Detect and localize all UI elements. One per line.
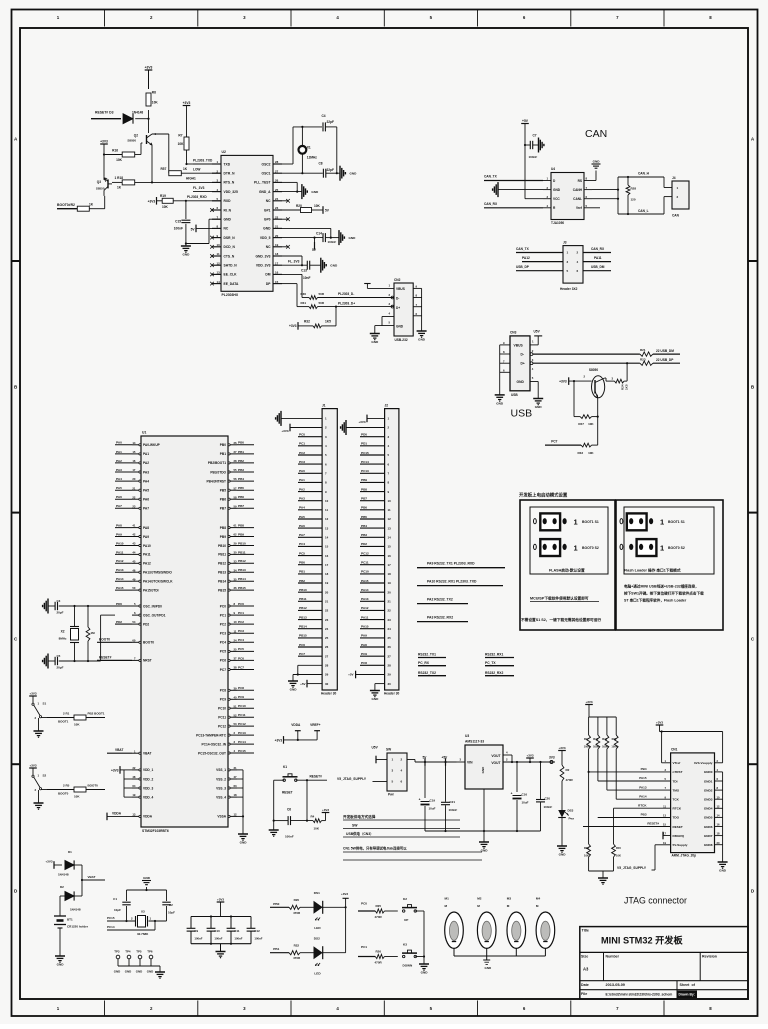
- J1 pin2 +3V3: [281, 424, 322, 433]
- wire V5_JTAG_SUPPLY to CN1: [617, 845, 671, 870]
- svg-text:M1: M1: [445, 897, 450, 901]
- resistor R27 10K (base pull-down): [574, 381, 598, 426]
- svg-text:+3V3: +3V3: [281, 429, 288, 433]
- svg-text:PA6: PA6: [116, 495, 122, 499]
- svg-text:12: 12: [388, 517, 392, 521]
- svg-text:SHTD_N: SHTD_N: [224, 264, 238, 268]
- svg-text:MCUISP下载软件使用默认设置即可: MCUISP下载软件使用默认设置即可: [530, 596, 589, 601]
- svg-text:PB14: PB14: [238, 577, 246, 581]
- ground (CN3 shield): [495, 395, 505, 406]
- svg-text:GND: GND: [371, 697, 379, 701]
- svg-text:R20: R20: [296, 204, 302, 208]
- svg-text:J3: J3: [563, 240, 567, 244]
- svg-text:M: M: [536, 904, 539, 908]
- svg-text:PL2303HX: PL2303HX: [222, 293, 239, 297]
- svg-text:AMS1117-33: AMS1117-33: [465, 740, 484, 744]
- svg-text:5V-Supply: 5V-Supply: [673, 843, 688, 847]
- svg-text:C4: C4: [322, 114, 326, 118]
- ground arrow (C3): [43, 599, 48, 614]
- svg-text:GND_A: GND_A: [259, 190, 271, 194]
- svg-text:K3: K3: [403, 943, 407, 947]
- U2 pin22 GP0 mark: [282, 217, 290, 221]
- svg-text:不需设置S1 S2，一键下载无需其他设置即可运行: 不需设置S1 S2，一键下载无需其他设置即可运行: [521, 617, 601, 622]
- svg-text:PL2303_RXD: PL2303_RXD: [187, 195, 207, 199]
- ground (DS3): [557, 846, 567, 857]
- svg-text:PC10: PC10: [361, 570, 369, 574]
- wire HIGH1 line to U2 RTS_N: [135, 177, 221, 183]
- svg-text:GND: GND: [224, 218, 232, 222]
- crystal X3 32.768K: [131, 910, 152, 937]
- svg-text:BOOT1 S1: BOOT1 S1: [668, 520, 685, 524]
- svg-text:GND: GND: [396, 324, 404, 328]
- svg-text:VBUS: VBUS: [514, 344, 524, 348]
- svg-text:PC1: PC1: [238, 611, 244, 615]
- svg-text:V5_JTAG_SUPPLY: V5_JTAG_SUPPLY: [337, 777, 367, 781]
- svg-text:16: 16: [388, 554, 392, 558]
- svg-text:VIN: VIN: [467, 760, 473, 764]
- svg-text:PC2: PC2: [238, 620, 244, 624]
- resistor R16 10K: [103, 143, 143, 162]
- svg-text:J2: J2: [385, 403, 389, 407]
- wire PC15 net: [107, 916, 136, 922]
- svg-text:NC: NC: [266, 199, 271, 203]
- svg-text:LED: LED: [314, 926, 321, 930]
- svg-text:PA10 RS232_RX1 PL2303_: PA10 RS232_RX1 PL2303_TXD: [427, 580, 477, 584]
- resistor R30 50R: [301, 292, 325, 299]
- svg-text:PC14: PC14: [238, 740, 246, 744]
- svg-text:+3V3: +3V3: [100, 139, 108, 143]
- svg-text:10nF: 10nF: [303, 276, 310, 280]
- svg-text:32.768K: 32.768K: [137, 932, 149, 936]
- svg-text:PB1: PB1: [299, 570, 305, 574]
- svg-text:PC1: PC1: [220, 613, 226, 617]
- svg-text:C1: C1: [113, 897, 117, 901]
- svg-text:VREF+: VREF+: [310, 723, 321, 727]
- wire PC14 net: [107, 921, 155, 930]
- svg-text:100nF: 100nF: [544, 805, 553, 809]
- svg-text:+3V3: +3V3: [322, 808, 329, 812]
- svg-text:CR1220 holder: CR1220 holder: [67, 925, 89, 929]
- svg-text:D-: D-: [521, 353, 524, 357]
- power +3V3 (U3 out): [526, 753, 534, 762]
- svg-text:10pF: 10pF: [168, 911, 175, 915]
- power 3V3 node: [549, 755, 555, 763]
- svg-text:Sheet: Sheet: [680, 983, 691, 987]
- switch S2: [29, 763, 47, 803]
- svg-text:28: 28: [388, 664, 392, 668]
- svg-text:C13: C13: [301, 268, 307, 272]
- J1 pin30 +5V: [300, 680, 322, 688]
- capacitor C2 10pF: [162, 902, 175, 914]
- svg-text:File: File: [581, 992, 587, 996]
- svg-text:CTS_N: CTS_N: [224, 254, 235, 258]
- svg-text:GND0: GND0: [704, 770, 713, 774]
- svg-text:+3V3: +3V3: [45, 860, 52, 864]
- svg-text:V5_JTAG_SUPPLY: V5_JTAG_SUPPLY: [617, 866, 647, 870]
- svg-text:PC15: PC15: [238, 749, 246, 753]
- wire CAN_RX from J3: [583, 247, 611, 253]
- svg-text:27: 27: [388, 654, 392, 658]
- svg-text:X2: X2: [61, 630, 65, 634]
- svg-text:13: 13: [663, 814, 666, 818]
- svg-text:PB9: PB9: [361, 478, 367, 482]
- svg-text:Revision: Revision: [702, 955, 717, 959]
- svg-text:10K: 10K: [152, 101, 159, 105]
- svg-text:PA8: PA8: [361, 643, 367, 647]
- svg-text:CAN_RX: CAN_RX: [484, 202, 498, 206]
- svg-text:UP: UP: [404, 918, 408, 922]
- svg-text:R27: R27: [578, 422, 584, 426]
- svg-text:R20: R20: [294, 898, 300, 902]
- svg-text:LED: LED: [314, 971, 321, 975]
- svg-text:PB6: PB6: [220, 498, 226, 502]
- wire 5V rail: [407, 760, 457, 764]
- CN2 shield pins 6-9: [413, 285, 421, 331]
- svg-text:PB11: PB11: [218, 553, 226, 557]
- wire nTRST PB4 net: [589, 749, 671, 772]
- svg-text:PA10: PA10: [361, 625, 369, 629]
- svg-text:PC7: PC7: [551, 439, 557, 443]
- svg-text:R2: R2: [566, 768, 570, 772]
- svg-text:CAN_L: CAN_L: [638, 209, 649, 213]
- svg-text:R23: R23: [640, 357, 646, 361]
- svg-text:470R: 470R: [566, 778, 574, 782]
- CN2 pin1 VBUS bar: [364, 283, 394, 288]
- svg-text:23: 23: [325, 618, 329, 622]
- svg-text:R14: R14: [584, 846, 589, 850]
- svg-text:PB6: PB6: [238, 495, 244, 499]
- svg-text:+3V3: +3V3: [148, 200, 156, 204]
- svg-text:PA14: PA14: [361, 588, 369, 592]
- svg-text:Header 30: Header 30: [384, 692, 399, 696]
- svg-text:1M: 1M: [91, 631, 96, 635]
- svg-text:10K: 10K: [584, 854, 589, 858]
- svg-text:PA11: PA11: [594, 256, 602, 260]
- svg-text:PA9 RS232_TX1 PL2303_: PA9 RS232_TX1 PL2303_RXD: [427, 562, 475, 566]
- svg-text:VDDA: VDDA: [112, 811, 122, 815]
- capacitor C6 100nF: [285, 808, 294, 839]
- svg-text:1K5: 1K5: [325, 320, 331, 324]
- svg-text:PB1: PB1: [220, 452, 226, 456]
- svg-text:PA6: PA6: [299, 524, 305, 528]
- svg-text:PB7: PB7: [361, 497, 367, 501]
- svg-text:FL_3V3: FL_3V3: [288, 259, 300, 263]
- wire USB D- line: [530, 349, 640, 356]
- svg-text:PC14-OSC32_IN: PC14-OSC32_IN: [202, 742, 227, 746]
- switch S1: [29, 691, 47, 731]
- svg-text:PA11: PA11: [143, 553, 151, 557]
- wire TDI PA15 net: [598, 749, 671, 781]
- wire PLL_TEST GND_A net: [282, 182, 302, 192]
- svg-text:PC9: PC9: [220, 698, 226, 702]
- svg-text:VSS_4: VSS_4: [216, 795, 226, 799]
- svg-text:PC3: PC3: [238, 629, 244, 633]
- svg-text:1K: 1K: [117, 186, 122, 190]
- svg-text:22: 22: [388, 609, 392, 613]
- svg-text:PLL_TEST: PLL_TEST: [254, 181, 271, 185]
- svg-text:PA15: PA15: [361, 579, 369, 583]
- svg-text:USB供电（CN3）: USB供电（CN3）: [346, 831, 374, 836]
- svg-text:PD2: PD2: [361, 542, 367, 546]
- capacitor C1 10pF: [113, 897, 131, 912]
- svg-text:PD0: PD0: [116, 602, 122, 606]
- wire RS232_TX1 tie: [418, 653, 446, 658]
- resistor R1 10K: [47, 711, 86, 726]
- svg-text:C20: C20: [545, 797, 551, 801]
- svg-text:HIGH1: HIGH1: [186, 177, 196, 181]
- svg-text:GND: GND: [114, 970, 120, 974]
- ground (S1): [34, 731, 44, 738]
- capacitor C3 20pF: [48, 599, 64, 615]
- resistors R9 R10 R11 R12 100K: [584, 717, 618, 749]
- svg-text:BOOT0: BOOT0: [58, 792, 69, 796]
- title block frame: [580, 927, 748, 999]
- power +3V3 (Q1 base): [559, 377, 591, 385]
- svg-text:S8050: S8050: [127, 139, 136, 143]
- wire PC1 net (K3): [358, 945, 375, 956]
- battery BT1 CR1220: [54, 914, 89, 956]
- svg-text:+3V3: +3V3: [183, 101, 191, 105]
- svg-text:C8: C8: [319, 161, 323, 165]
- svg-text:+3V3: +3V3: [558, 746, 565, 750]
- label power select note: [343, 814, 482, 860]
- svg-text:PA3: PA3: [143, 470, 149, 474]
- svg-text:C9: C9: [194, 929, 198, 933]
- svg-text:RESET: RESET: [673, 825, 683, 829]
- svg-text:17: 17: [388, 563, 392, 567]
- svg-text:USB: USB: [511, 408, 533, 420]
- svg-text:PA10: PA10: [143, 544, 151, 548]
- svg-text:100nF: 100nF: [214, 936, 222, 940]
- svg-text:25: 25: [325, 636, 329, 640]
- svg-text:GND: GND: [290, 688, 298, 692]
- svg-text:PA11: PA11: [116, 550, 124, 554]
- wire U4 GND pin2: [498, 189, 543, 191]
- wire TMS PA13 net: [607, 749, 671, 790]
- wire CAN_L bottom rail: [618, 197, 664, 214]
- svg-text:PA1: PA1: [116, 450, 122, 454]
- wire PA10 RS232_RX1 tie: [417, 580, 503, 586]
- svg-text:1: 1: [574, 518, 578, 527]
- svg-text:PA7: PA7: [116, 504, 122, 508]
- svg-text:GND1: GND1: [704, 779, 713, 783]
- svg-text:PB11: PB11: [299, 597, 307, 601]
- resistor R28 120: [626, 176, 636, 215]
- svg-text:R4: R4: [311, 814, 315, 818]
- svg-text:PB5: PB5: [220, 489, 226, 493]
- power +3V3 (R7): [183, 101, 191, 137]
- svg-text:GND: GND: [719, 869, 727, 873]
- svg-text:21: 21: [132, 486, 136, 490]
- svg-text:TMS: TMS: [673, 788, 680, 792]
- svg-text:M4: M4: [536, 897, 541, 901]
- capacitor C15 100nF: [174, 200, 191, 246]
- svg-text:CN1 5W供电，只有导调试电Jtak连接可以: CN1 5W供电，只有导调试电Jtak连接可以: [343, 846, 407, 851]
- svg-text:100K: 100K: [593, 745, 599, 749]
- svg-text:RS232_TX2: RS232_TX2: [418, 671, 436, 675]
- svg-text:PB15: PB15: [238, 586, 246, 590]
- wire DP to R31: [282, 284, 309, 307]
- svg-text:Header 30: Header 30: [321, 692, 336, 696]
- svg-text:10K: 10K: [162, 205, 169, 209]
- svg-text:S1: S1: [43, 702, 47, 706]
- svg-text:PA2: PA2: [116, 459, 122, 463]
- svg-text:PC3: PC3: [220, 632, 226, 636]
- svg-text:PB12: PB12: [218, 562, 226, 566]
- svg-text:GND: GND: [559, 853, 567, 857]
- U2 pin names and numbers: [212, 160, 282, 286]
- jumper diagram BOOT1 S1 loader: [620, 513, 685, 530]
- wire RESET# net label: [97, 656, 132, 661]
- power +3V3 (decoupling): [217, 897, 225, 916]
- wire PC_RX tie: [418, 661, 446, 666]
- wire OSC2 net: [282, 127, 322, 164]
- wire R14 R15 ground rail: [589, 871, 614, 878]
- svg-text:NC: NC: [266, 245, 271, 249]
- svg-text:100K: 100K: [602, 745, 608, 749]
- wire USB_DM label: [653, 349, 680, 354]
- svg-text:PB12: PB12: [299, 606, 307, 610]
- IC U2 PL2303HX body: [221, 150, 273, 297]
- svg-text:PC15: PC15: [361, 451, 369, 455]
- svg-text:R57: R57: [161, 167, 167, 171]
- svg-text:PB10: PB10: [238, 541, 246, 545]
- svg-text:PB3: PB3: [641, 813, 647, 817]
- svg-text:Flash Loader 操作 串口1下载模式: Flash Loader 操作 串口1下载模式: [624, 568, 681, 573]
- svg-text:GND: GND: [418, 338, 426, 342]
- svg-text:VDDA: VDDA: [291, 723, 301, 727]
- svg-text:D+: D+: [396, 306, 400, 310]
- svg-text:GND: GND: [240, 841, 248, 845]
- svg-text:OSC2: OSC2: [262, 162, 271, 166]
- svg-text:R32: R32: [304, 320, 310, 324]
- svg-text:1: 1: [660, 518, 664, 527]
- svg-text:PB8: PB8: [238, 524, 244, 528]
- label USB title: [511, 408, 533, 420]
- wire CAN_H top rail: [618, 172, 664, 188]
- jumper diagram BOOT0 S2 default: [534, 539, 599, 556]
- svg-text:R15: R15: [616, 846, 621, 850]
- wire VBAT net: [81, 865, 105, 896]
- svg-text:1N4148: 1N4148: [132, 110, 143, 114]
- svg-text:PA4: PA4: [143, 479, 149, 483]
- svg-text:U5V: U5V: [534, 329, 541, 333]
- svg-text:Pwr: Pwr: [569, 817, 575, 821]
- wire PC0 net (K2): [358, 902, 375, 911]
- svg-text:NRST: NRST: [143, 659, 152, 663]
- svg-text:VDD_325: VDD_325: [224, 190, 238, 194]
- svg-text:R9: R9: [584, 737, 588, 741]
- wire U3 VIN: [457, 761, 466, 763]
- svg-text:ST 串口1下载程序软件，Flash Loader: ST 串口1下载程序软件，Flash Loader: [624, 598, 687, 603]
- svg-text:GND: GND: [371, 340, 379, 344]
- ground (U4 RS pin8): [592, 159, 601, 180]
- svg-text:PA15: PA15: [639, 776, 647, 780]
- resistor R7 10K: [178, 134, 193, 166]
- resistor R23 22 (USB_DP): [640, 357, 653, 365]
- svg-text:TDI: TDI: [673, 779, 678, 783]
- svg-text:58: 58: [234, 495, 238, 499]
- svg-text:CN3: CN3: [510, 330, 517, 334]
- wire U5V to CN3 VBUS: [530, 329, 542, 345]
- ground (CN2 pin5): [370, 334, 380, 345]
- J2 pin2 ground arrow: [341, 420, 385, 435]
- switch SW block: [386, 748, 407, 797]
- svg-text:22pF: 22pF: [327, 120, 334, 124]
- CN2 pin2 pin3 circles: [389, 293, 394, 325]
- connector J4 CAN: [664, 176, 689, 218]
- svg-text:M: M: [445, 904, 448, 908]
- svg-text:PC0: PC0: [238, 602, 244, 606]
- svg-text:R28: R28: [631, 187, 637, 191]
- svg-text:22: 22: [132, 495, 136, 499]
- svg-text:TP5: TP5: [136, 950, 142, 954]
- svg-text:GND: GND: [553, 188, 561, 192]
- svg-text:VSSA: VSSA: [217, 815, 226, 819]
- svg-text:GND5: GND5: [704, 816, 713, 820]
- svg-text:VBAT: VBAT: [143, 752, 151, 756]
- wire VDDA VREF+ tie: [275, 723, 321, 744]
- svg-text:PB0: PB0: [238, 441, 244, 445]
- wire U3 VOUT rail 3V3: [503, 755, 555, 763]
- svg-text:PB9: PB9: [238, 532, 244, 536]
- svg-text:R33: R33: [578, 451, 584, 455]
- CN1 pin names: [663, 759, 723, 847]
- svg-text:TXD: TXD: [224, 162, 231, 166]
- svg-text:PC11: PC11: [238, 713, 246, 717]
- svg-text:14: 14: [325, 536, 329, 540]
- svg-text:Drawn By:: Drawn By:: [679, 993, 695, 997]
- power +3V3 (R8 pull-up): [145, 65, 153, 89]
- svg-text:GND3: GND3: [704, 798, 713, 802]
- svg-text:PC10: PC10: [238, 704, 246, 708]
- svg-text:PC7: PC7: [299, 652, 305, 656]
- svg-text:PC2: PC2: [220, 622, 226, 626]
- svg-text:TJA1050: TJA1050: [551, 221, 564, 225]
- resistor R14 10K: [584, 771, 591, 871]
- svg-text:PB7: PB7: [238, 504, 244, 508]
- connector J1 Header30 body: [321, 403, 337, 695]
- svg-text:PB8: PB8: [361, 487, 367, 491]
- svg-text:PB0: PB0: [220, 443, 226, 447]
- svg-text:Title: Title: [582, 929, 589, 933]
- transistor Q1 S8050: [584, 368, 614, 398]
- svg-text:PA1: PA1: [299, 478, 305, 482]
- ground (J1): [288, 681, 298, 692]
- svg-text:PC6: PC6: [238, 656, 244, 660]
- svg-text:PB8: PB8: [220, 526, 226, 530]
- svg-text:U5V: U5V: [372, 746, 379, 750]
- svg-text:PA9: PA9: [143, 535, 149, 539]
- svg-text:PD2: PD2: [116, 620, 122, 624]
- svg-text:+5V: +5V: [348, 673, 353, 677]
- svg-text:GND: GND: [263, 227, 271, 231]
- svg-text:20pF: 20pF: [57, 666, 64, 670]
- svg-text:+3V3: +3V3: [358, 420, 365, 424]
- svg-text:100nF: 100nF: [529, 155, 538, 159]
- svg-text:GND: GND: [517, 380, 525, 384]
- svg-text:GND: GND: [350, 172, 358, 176]
- svg-text:M3: M3: [507, 897, 512, 901]
- svg-text:18: 18: [717, 832, 720, 836]
- svg-text:PB5: PB5: [238, 486, 244, 490]
- svg-text:PB6: PB6: [361, 506, 367, 510]
- svg-text:2 R1: 2 R1: [63, 711, 70, 715]
- svg-text:CAN_TX: CAN_TX: [484, 175, 498, 179]
- svg-text:100nF: 100nF: [174, 227, 183, 231]
- svg-text:+: +: [419, 798, 421, 802]
- svg-text:PA15: PA15: [116, 586, 124, 590]
